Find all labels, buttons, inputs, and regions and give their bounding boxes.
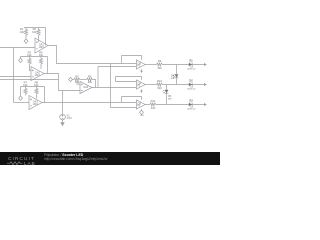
resistor R11 (row3 inline) [150, 103, 156, 106]
LED D5 (vertical, cascade) [163, 90, 169, 105]
resistor R11 label [151, 99, 156, 110]
wire cascade drop row2 to row3 [166, 85, 168, 90]
ground row1 [203, 63, 207, 66]
LED D2 (row2 horizontal) [189, 81, 193, 86]
resistor R4 (block B right, vertical) [39, 57, 42, 70]
svg-text:10k: 10k [88, 80, 93, 84]
resistor R10 (row2 inline) [157, 83, 163, 86]
wire V1 drop [62, 91, 64, 115]
wire row1 output cont [162, 64, 203, 66]
resistor R1 (block A left, vertical) [24, 28, 27, 39]
svg-text:10k: 10k [20, 30, 25, 34]
svg-text:LAB: LAB [24, 161, 35, 165]
LED D4 label [171, 75, 175, 81]
wire block C top rail [21, 86, 45, 88]
LED D2 label [187, 79, 195, 91]
svg-text:red: red [171, 77, 175, 80]
resistor R5 label [75, 74, 80, 83]
node flag B (diamond) [19, 57, 23, 63]
resistor R6 label [88, 74, 93, 83]
svg-text:R5: R5 [75, 74, 79, 78]
wire OA3 input from bus [14, 102, 30, 104]
wire left vertical bus [13, 48, 15, 103]
node flag CMP3 label [140, 114, 144, 117]
resistor R6 (block D right, horizontal) [87, 78, 93, 81]
wire block D feedback [93, 80, 96, 88]
ground stub below CMP1 [140, 69, 143, 73]
wire cascade drop row1 to row2 [176, 65, 178, 75]
svg-text:2.5V: 2.5V [67, 116, 73, 120]
svg-text:R11: R11 [151, 99, 156, 103]
resistor R9 label [157, 59, 162, 70]
op-amp OA2 label [35, 71, 41, 77]
resistor R1 label [20, 27, 25, 34]
comparator CMP3 label [137, 103, 141, 107]
LED D4 (vertical, cascade) [173, 74, 179, 84]
svg-text:(633nm): (633nm) [187, 89, 195, 91]
svg-text:CIRCUIT: CIRCUIT [8, 155, 35, 161]
svg-text:LM3: LM3 [35, 74, 40, 77]
wire row3 vplus rail [122, 97, 142, 100]
wire block B top rail [21, 56, 48, 58]
wire row3 output [145, 104, 150, 106]
svg-text:D1: D1 [189, 59, 193, 62]
wire row1 output [145, 64, 156, 66]
resistor R3 label [27, 51, 32, 58]
wire OA1 inverting input [0, 47, 35, 49]
svg-text:red: red [168, 97, 172, 100]
wire row1 plus input [98, 66, 136, 68]
resistor R7 label [23, 81, 28, 88]
wire OA3 output long [42, 102, 136, 104]
op-amp OA1 label [39, 43, 45, 49]
svg-text:10k: 10k [27, 53, 32, 57]
wire V1 to ground [62, 120, 64, 123]
wire block C feedback [44, 87, 46, 103]
wire row2 output [145, 84, 156, 86]
resistor R5 (block D left, horizontal) [74, 78, 80, 81]
LED D3 (row3 horizontal) [189, 101, 193, 106]
svg-text:10k: 10k [32, 30, 37, 34]
svg-text:10k: 10k [39, 53, 44, 57]
wire block C flag stub [20, 87, 22, 96]
op-amp OA4 [80, 82, 92, 94]
footer bar [0, 152, 220, 166]
wire row2 vplus rail [116, 77, 142, 80]
wire long left rail [0, 79, 59, 81]
svg-text:330: 330 [157, 86, 162, 90]
wire row2 output cont [162, 84, 203, 86]
wire row2 minus input [116, 81, 137, 83]
ground row2 [203, 83, 207, 86]
svg-text:10k: 10k [34, 83, 39, 87]
wire block B feedback [47, 57, 49, 74]
resistor R7 (block C left, vertical) [24, 87, 27, 96]
node flag below CMP3 (diamond) [140, 109, 144, 114]
wire OA4 output [92, 87, 136, 89]
svg-text:330: 330 [151, 106, 156, 110]
resistor R4 label [39, 51, 44, 58]
LED D5 label [168, 95, 172, 101]
svg-text:D2: D2 [189, 79, 193, 82]
LED D1 (row1 horizontal) [189, 61, 193, 66]
comparator CMP1 label [137, 63, 141, 67]
resistor R10 label [157, 79, 162, 90]
wire row3 plus input [111, 107, 137, 109]
svg-text:D3: D3 [189, 99, 193, 102]
ground row3 [203, 103, 207, 106]
resistor R2 (block A right, vertical) [37, 28, 40, 43]
wire OA2 inverting input [0, 76, 31, 78]
svg-text:R6: R6 [88, 74, 92, 78]
wire block D tap to inverting input [77, 81, 80, 84]
comparator CMP1 [136, 60, 145, 69]
LED D1 label [187, 59, 195, 71]
node flag A (diamond) [24, 39, 28, 43]
CircuitLab logo [6, 154, 48, 167]
wire comparator plus bus vertical [97, 67, 99, 88]
svg-text:(633nm): (633nm) [187, 69, 195, 71]
op-amp OA3 label [33, 100, 39, 106]
svg-text:LM3: LM3 [33, 103, 38, 106]
resistor R8 label [34, 81, 39, 88]
resistor R8 (block C right, vertical) [35, 87, 38, 99]
wire block A feedback [45, 28, 47, 46]
op-amp OA4 label [83, 86, 89, 89]
ground below V1 [60, 122, 64, 126]
comparator CMP3 [136, 100, 145, 109]
wire row2 vplus left leg [115, 77, 117, 82]
svg-text:R9: R9 [158, 59, 162, 63]
node flag C (diamond) [19, 96, 23, 100]
node flag D (diamond) [69, 77, 74, 81]
svg-text:out: out [140, 114, 144, 117]
wire block A top rail [24, 27, 46, 29]
wire OA1 output [48, 46, 136, 64]
svg-text:10k: 10k [23, 83, 28, 87]
svg-text:OA4: OA4 [83, 86, 89, 89]
voltage source V1 label [67, 113, 73, 120]
svg-text:LM3: LM3 [39, 46, 44, 49]
wire row3 vplus left leg [121, 97, 123, 103]
ground stub below CMP2 [140, 89, 143, 93]
comparator CMP2 [136, 80, 145, 89]
LED D3 label [187, 99, 195, 111]
title text [44, 154, 83, 158]
op-amp OA1 [35, 38, 48, 53]
svg-text:R10: R10 [157, 79, 162, 83]
op-amp OA3 [29, 96, 42, 110]
comparator CMP2 label [137, 83, 141, 87]
wire OA2 output to OA4 plus input [44, 74, 80, 91]
resistor R2 label [32, 27, 37, 34]
op-amp OA2 [31, 67, 44, 81]
svg-text:(633nm): (633nm) [187, 109, 195, 111]
wire block D rail mid [80, 79, 87, 81]
svg-text:330: 330 [157, 66, 162, 70]
voltage source V1 [60, 114, 66, 120]
wire row1 vplus rail [122, 56, 142, 60]
wire row3 output cont [156, 104, 203, 106]
resistor R9 (row1 inline) [157, 63, 163, 66]
wire OA1 branch vertical [110, 64, 112, 108]
wire row1 vplus left leg [121, 56, 123, 64]
url text [44, 158, 107, 162]
resistor R3 (block B left, vertical) [28, 57, 31, 71]
